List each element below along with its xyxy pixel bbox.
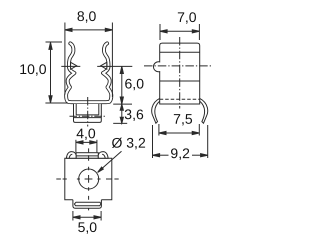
svg-text:5,0: 5,0 [78, 219, 98, 235]
svg-text:3,6: 3,6 [124, 106, 144, 122]
dimension 7,0: extension lines [159, 24, 161, 40]
front view: fuse axis centerline [144, 65, 213, 67]
side view: fuse axis line left segment [61, 65, 80, 67]
front view: hidden edge (dashed) [160, 98, 200, 100]
svg-text:4,0: 4,0 [76, 125, 96, 141]
dimension 4,0: extension lines [75, 140, 77, 153]
bottom view: top strip (stud flat) [76, 153, 98, 159]
side view: stud inner wall right [98, 104, 100, 115]
svg-text:7,5: 7,5 [173, 111, 193, 127]
bottom view: vertical centerline [88, 148, 90, 210]
dimension 8,0: dimension line + arrows [65, 29, 113, 31]
bottom view: square base outline [65, 158, 112, 200]
side view: right contact V-notch [101, 62, 107, 69]
front view: left spring arm [152, 98, 160, 123]
svg-text:9,2: 9,2 [170, 145, 190, 161]
side view: stud flange line [74, 117, 102, 119]
front view: upper bend line [160, 51, 200, 53]
front view: body outline with side lug bump [153, 43, 199, 104]
dimension 9,2: dimension line + arrows [153, 154, 169, 156]
side view: fuse axis line right segment [97, 65, 132, 67]
dimension 6,0 / 3,6: shared extension + dimension lines [113, 103, 132, 105]
side view: stud inner wall left [75, 104, 77, 115]
dimension 10,0: extension lines [46, 41, 63, 43]
dimension 7,5: extension lines [158, 124, 160, 136]
side view: left contact V-notch [71, 62, 77, 69]
front view: right spring arm [199, 98, 207, 123]
svg-text:7,0: 7,0 [177, 9, 197, 25]
svg-text:10,0: 10,0 [19, 61, 46, 77]
bottom view: bottom tab outline [73, 200, 102, 208]
dimension 10,0: dimension line + arrows [50, 42, 52, 103]
bottom view: center hole [79, 169, 99, 189]
leader line for hole diameter [98, 151, 122, 172]
bottom view: right ear bump [98, 152, 108, 159]
svg-text:6,0: 6,0 [125, 75, 145, 91]
bottom view: tab inner slot [74, 202, 101, 206]
dimension 7,0: dimension line + arrows [160, 30, 199, 32]
bottom view: left ear bump [66, 152, 76, 159]
front view: vertical centerline [179, 37, 181, 109]
svg-text:Ø 3,2: Ø 3,2 [111, 135, 145, 151]
dimension 8,0: extension lines [64, 23, 66, 95]
front view: lower bend line [160, 80, 200, 82]
svg-text:8,0: 8,0 [77, 8, 97, 24]
side view: stud horizontal centerline [70, 115, 106, 117]
dimension 7,5: dimension line + arrows [159, 132, 199, 134]
side view: solder stud outer outline [74, 104, 102, 123]
dimension 5,0: extension lines [72, 211, 74, 221]
bottom view: horizontal centerline [56, 178, 118, 180]
side view: stud vertical centerline [87, 97, 89, 127]
side view: stud inner step line [76, 114, 99, 116]
bottom view: strip inner line [76, 155, 98, 157]
dimension 5,0: dimension line + arrows [73, 216, 101, 218]
dimension 4,0: dimension line + arrows [76, 141, 97, 143]
dimension 9,2: extension lines [152, 125, 154, 158]
